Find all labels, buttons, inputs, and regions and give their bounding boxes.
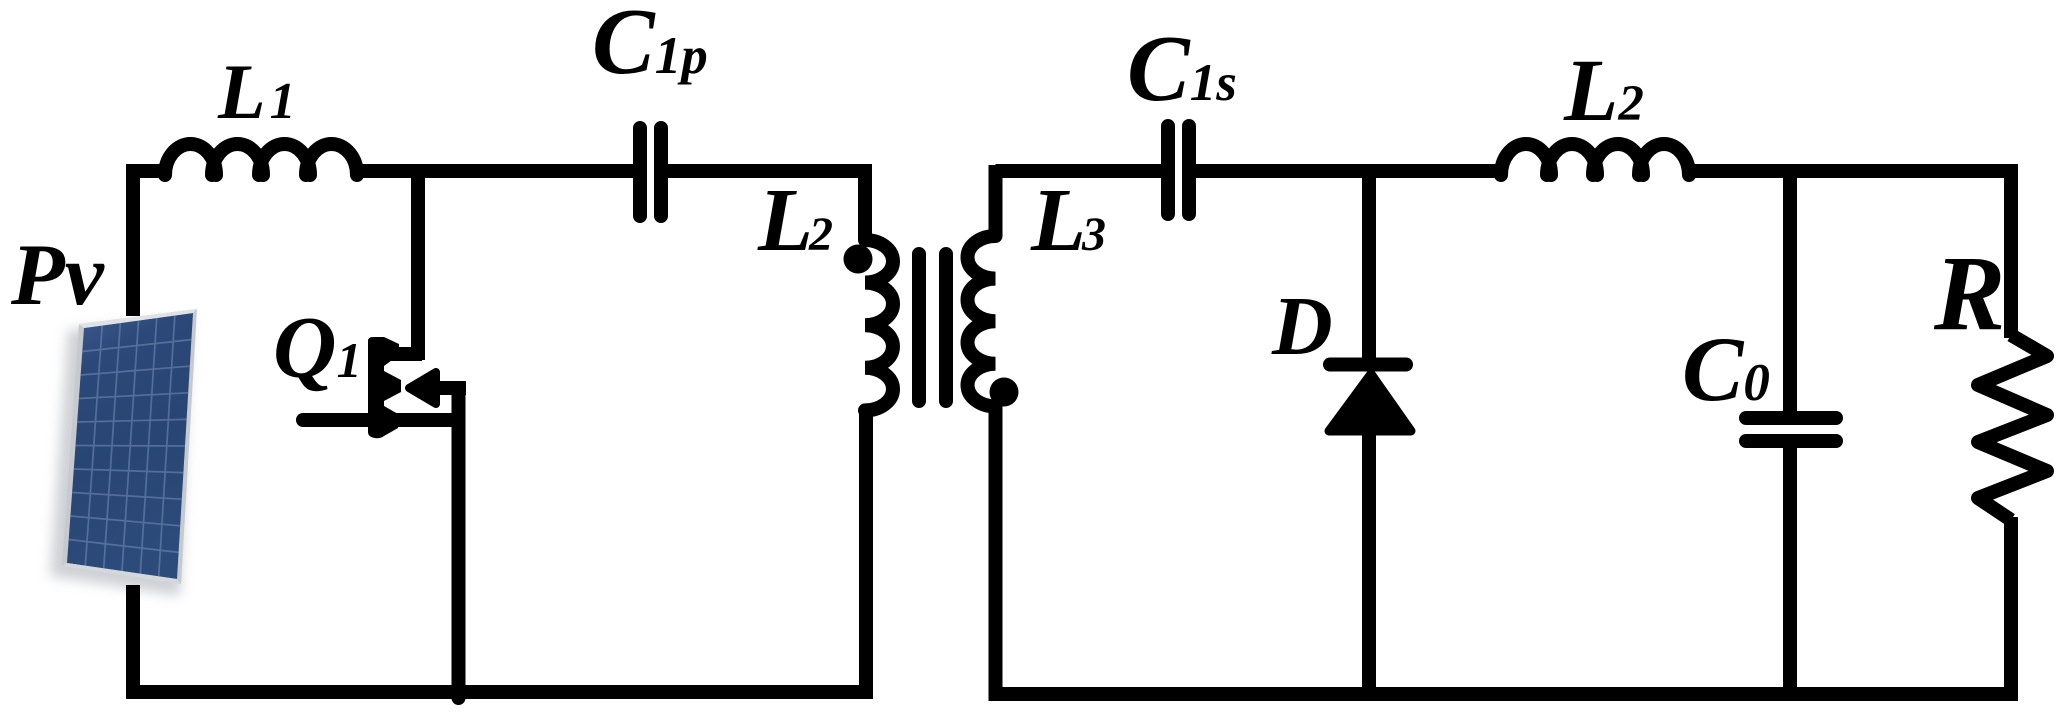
- wire: secondary bottom lead, bottom rail right, R bottom wire: [996, 406, 2012, 694]
- diode D: [1271, 165, 1411, 695]
- Q1 body arrow tail: [432, 382, 466, 420]
- primary top lead: [858, 164, 872, 240]
- C0 top plate: [1746, 411, 1836, 425]
- wire: PV top lead, top rail to L1: [133, 171, 171, 316]
- Q1 source wire: [452, 414, 466, 698]
- wire: top rail C1p to transformer: [668, 164, 865, 178]
- secondary top lead: [989, 165, 1003, 236]
- svg-text:Pv: Pv: [10, 227, 105, 324]
- capacitor C0: [1682, 165, 1836, 695]
- transformer primary winding L2: [757, 164, 893, 410]
- secondary phase dot: [990, 378, 1019, 407]
- transformer core: [919, 254, 946, 401]
- svg-text:R: R: [1933, 235, 2005, 353]
- D triangle: [1329, 374, 1411, 431]
- capacitor C1s: [1168, 126, 1189, 214]
- resistor R: [1933, 235, 2047, 520]
- Q1 gate lead: [303, 413, 458, 427]
- C0 bottom wire: [1783, 448, 1797, 695]
- R zigzag: [1978, 335, 2047, 520]
- PV solar panel photo: [50, 309, 197, 596]
- wire: top rail L2 to right corner: [1683, 171, 2011, 338]
- Q1 body arrow head: [409, 372, 436, 404]
- wire: secondary top rail to C1s: [996, 164, 1163, 178]
- C0 bottom plate: [1746, 434, 1836, 448]
- svg-text:D: D: [1271, 280, 1333, 373]
- C0 top wire: [1783, 165, 1797, 411]
- capacitor C1p: [640, 128, 661, 216]
- wire: PV bottom lead, bottom rail left, primary bottom lead: [133, 408, 866, 692]
- Q1 drain stub: [380, 347, 422, 361]
- wire: top rail C1s to L2: [1196, 164, 1506, 178]
- transformer secondary winding L3: [968, 165, 1106, 407]
- primary phase dot: [844, 245, 873, 274]
- Q1 drain wire: [411, 165, 425, 360]
- transistor Q1: [273, 165, 466, 698]
- wire: top rail L1 to C1p: [351, 164, 634, 178]
- inductor L2 output: [1501, 144, 1689, 175]
- D cathode wire: [1362, 165, 1376, 360]
- primary winding arcs: [865, 240, 893, 410]
- secondary winding arcs: [968, 236, 996, 406]
- D anode wire: [1362, 431, 1376, 695]
- Q1 gate bar with chevrons: [368, 337, 401, 438]
- D cathode bar: [1330, 358, 1406, 372]
- inductor L1: [165, 144, 357, 175]
